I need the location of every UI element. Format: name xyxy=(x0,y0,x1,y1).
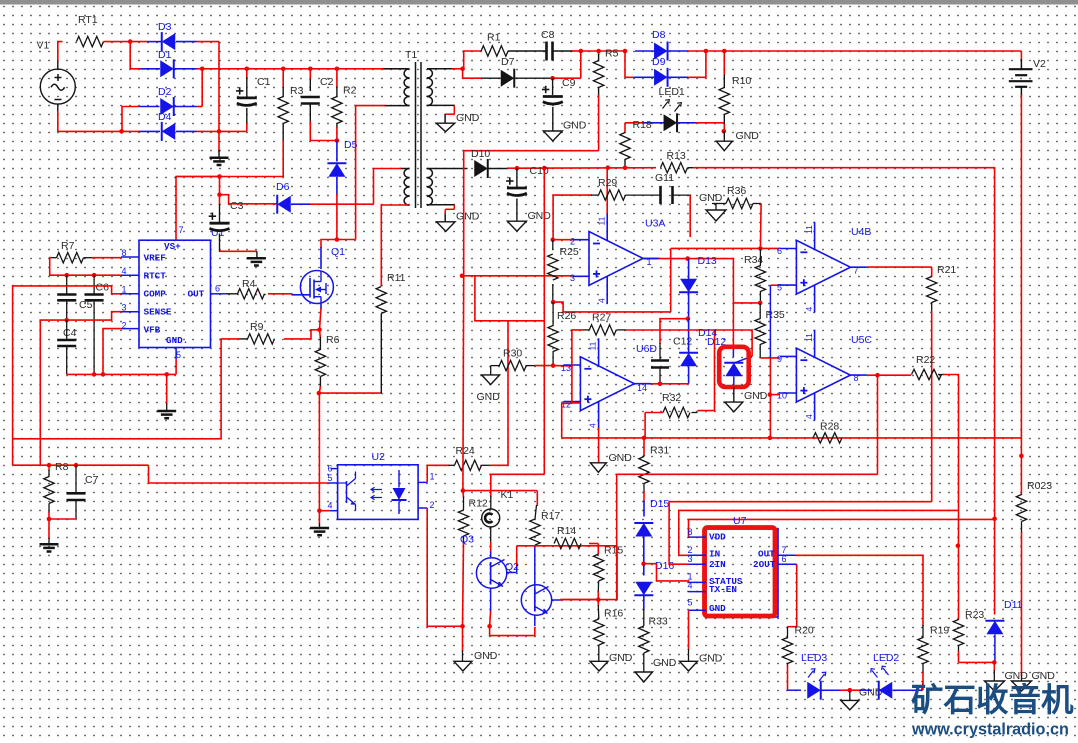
wire sense column xyxy=(318,393,320,511)
svg-text:R8: R8 xyxy=(55,461,69,473)
svg-text:R17: R17 xyxy=(541,510,560,522)
wire R9 left xyxy=(239,338,248,340)
wire C12 top lead xyxy=(659,343,661,360)
resistor R023 xyxy=(1016,495,1026,522)
svg-text:R3: R3 xyxy=(290,85,304,97)
capacitor C2 xyxy=(301,96,320,99)
node plus275 junction xyxy=(460,274,465,279)
svg-text:R2: R2 xyxy=(343,85,357,97)
svg-text:C10: C10 xyxy=(530,165,549,177)
svg-text:3: 3 xyxy=(570,273,575,283)
wire R36 left xyxy=(715,204,717,211)
svg-text:R14: R14 xyxy=(557,525,576,537)
wire y501 bus xyxy=(669,502,932,565)
diode D13 xyxy=(680,279,697,293)
resistor R26 xyxy=(548,326,558,352)
wire R18 bottom xyxy=(624,160,626,168)
resistor R21 leads xyxy=(931,267,933,276)
svg-text:GND: GND xyxy=(653,657,677,669)
wire y275 plus input xyxy=(462,275,573,277)
transformer T1 lower-left winding xyxy=(404,169,409,178)
wire D4 to node D xyxy=(176,130,197,132)
wire node D down xyxy=(218,131,220,152)
transistor Q3 xyxy=(476,558,506,588)
wire R5 to C10 corner xyxy=(464,151,599,276)
wire C3 top xyxy=(219,177,221,195)
ground C10 xyxy=(507,221,526,231)
wire K1 bottom xyxy=(490,527,492,543)
wire y437 bus xyxy=(562,437,1022,439)
node R34 bottom junction xyxy=(758,301,763,306)
wire R13 right xyxy=(688,167,695,169)
wire R19 bottom xyxy=(922,672,924,690)
wire rail68 xyxy=(202,68,408,70)
svg-text:GND: GND xyxy=(709,603,726,614)
svg-text:11: 11 xyxy=(597,216,607,225)
diode D16 xyxy=(635,582,652,596)
wire C4 bottom xyxy=(66,347,68,375)
wire C6R lead xyxy=(93,275,95,294)
wire A to D1 xyxy=(130,42,140,69)
LED3 arrow 2 xyxy=(819,672,826,681)
resistor R20 leads xyxy=(787,627,789,639)
wire R5 col lower xyxy=(462,276,465,491)
wire C5L bottom xyxy=(66,301,68,320)
node R2 top xyxy=(335,67,340,72)
node R8 top junction xyxy=(47,463,52,468)
resistor R11 xyxy=(376,287,386,314)
node D13 bottom junction xyxy=(686,316,691,321)
svg-text:U7: U7 xyxy=(733,515,747,527)
node D5 top xyxy=(335,138,340,143)
wire R27 left xyxy=(583,329,589,331)
op-amp U3A xyxy=(589,232,643,286)
svg-text:D3: D3 xyxy=(158,21,172,33)
resistor R33 xyxy=(639,626,649,653)
ground C9 xyxy=(543,131,562,141)
ground earth bridge xyxy=(210,157,229,160)
ground U6D xyxy=(590,463,606,473)
wire R6 to R11 xyxy=(319,392,381,394)
wire R32 left xyxy=(645,412,663,414)
wire drain down to Q1 xyxy=(321,240,337,249)
wire LED3 right xyxy=(821,689,841,691)
svg-text:GND: GND xyxy=(528,210,552,222)
node R15 bottom junction xyxy=(596,597,601,602)
diode D15 xyxy=(635,523,652,537)
svg-text:R20: R20 xyxy=(795,625,814,637)
wire bridge right vertical xyxy=(218,42,220,132)
resistor R30 xyxy=(499,360,526,370)
wire R3 bottom xyxy=(282,123,284,142)
ground T1 lower xyxy=(437,222,455,232)
wire R32 to D14 col xyxy=(698,330,715,411)
resistor R5 xyxy=(593,61,603,88)
wire R15 top lead xyxy=(597,544,599,555)
node U2 pin4 junction xyxy=(317,508,322,513)
wire R023 bottom col xyxy=(1021,532,1023,676)
SCR D12 symbol xyxy=(732,346,734,357)
wire y546 bus xyxy=(517,545,590,547)
node R26 bottom junction xyxy=(551,363,556,368)
node A junction xyxy=(128,39,133,44)
wire V2 col to R023 xyxy=(1020,438,1022,494)
IC U1 box xyxy=(139,240,211,347)
transformer T1 lower-right winding xyxy=(427,169,432,178)
capacitor C11 xyxy=(659,186,662,204)
svg-text:VFB: VFB xyxy=(144,325,161,336)
probe K1 xyxy=(482,509,500,527)
wire y465 to U2 pin5 xyxy=(149,465,329,483)
wire emitter jog xyxy=(490,626,535,635)
svg-text:4: 4 xyxy=(597,298,607,303)
wire down to D7 row xyxy=(463,69,482,78)
svg-text:R4: R4 xyxy=(242,278,256,290)
resistor R7 xyxy=(57,253,84,263)
resistor R32 xyxy=(663,407,690,417)
U7 pin1 stub xyxy=(689,581,707,583)
node VFB bottom junction xyxy=(101,372,106,377)
node R6 bottom junction xyxy=(317,391,322,396)
wire C2 lead top xyxy=(309,69,311,80)
wire R22 right xyxy=(938,374,944,376)
U6D gnd wire xyxy=(598,428,600,463)
svg-text:C6: C6 xyxy=(96,282,110,294)
wire R24 right xyxy=(482,464,491,466)
wire U7 gnd stem xyxy=(688,649,690,662)
svg-text:D15: D15 xyxy=(650,498,669,510)
wire D8 cathode xyxy=(667,50,688,52)
LED2 arrow 2 xyxy=(882,666,889,675)
svg-text:T1: T1 xyxy=(405,49,417,61)
wire C8 node down xyxy=(580,51,582,78)
wire R21 bottom col xyxy=(931,311,933,502)
svg-text:Q3: Q3 xyxy=(460,534,474,546)
svg-text:R27: R27 xyxy=(592,312,611,324)
wire Q1 source xyxy=(320,303,322,309)
wire to U4B minus col xyxy=(670,248,672,312)
wire to D3 xyxy=(130,41,147,43)
node C3 wire junction xyxy=(217,174,222,179)
wire R27 right xyxy=(617,329,627,331)
svg-text:R5: R5 xyxy=(605,48,619,60)
wire rail68 into T1 xyxy=(383,68,410,70)
svg-text:GND: GND xyxy=(699,653,723,665)
capacitor C4 xyxy=(57,339,76,342)
U1 pin6 stub xyxy=(211,293,226,295)
node VDD rail junction xyxy=(992,517,997,522)
svg-text:R13: R13 xyxy=(667,150,686,162)
resistor R34 xyxy=(755,266,765,292)
resistor R16 xyxy=(594,619,604,645)
resistor R25 bottom lead xyxy=(552,284,554,301)
node R5 top junction xyxy=(596,49,601,54)
wire R6 bottom xyxy=(319,377,321,388)
wire R2 lead top xyxy=(336,69,338,88)
diode D5 xyxy=(328,163,345,177)
LED2 arrow 1 xyxy=(871,669,878,678)
svg-text:10: 10 xyxy=(777,391,787,401)
wire lower-left top xyxy=(400,168,410,170)
svg-text:R24: R24 xyxy=(456,445,475,457)
LED3 arrow 1 xyxy=(808,669,815,678)
svg-text:V1: V1 xyxy=(37,40,50,52)
wire D13 bottom xyxy=(688,293,690,319)
wire C10 bottom xyxy=(516,199,518,222)
wire y176 link xyxy=(176,176,220,178)
U1 pin4 stub xyxy=(121,274,139,276)
resistor R26 leads xyxy=(552,302,554,326)
wire R8 bottom xyxy=(48,504,50,514)
diode LED2 xyxy=(879,682,893,699)
wire R11 bottom xyxy=(380,314,382,394)
svg-text:V2: V2 xyxy=(1033,58,1046,70)
wire U6D minus stub link xyxy=(553,365,573,367)
svg-text:D13: D13 xyxy=(698,255,717,267)
wire 2OUT down xyxy=(788,564,797,627)
wire R10 gnd stem xyxy=(723,131,725,141)
U2 LED xyxy=(398,470,400,488)
svg-text:4: 4 xyxy=(804,414,814,419)
node U3A supply junction xyxy=(606,165,611,170)
wire C6R bottom xyxy=(93,301,95,374)
svg-text:GND: GND xyxy=(477,391,501,403)
capacitor C6 xyxy=(85,293,104,296)
wire U4B plus stub link xyxy=(770,284,780,286)
diode LED3 xyxy=(807,682,821,699)
svg-text:R21: R21 xyxy=(937,264,956,276)
capacitor C8 xyxy=(545,42,548,61)
wire C7 lead xyxy=(75,465,77,492)
ground rail1 xyxy=(985,681,1005,691)
wire lower-right bottom to gnd xyxy=(427,204,455,206)
ground R10 xyxy=(716,141,732,151)
wire C12 bottom lead xyxy=(659,369,661,384)
wire D10 cathode xyxy=(489,168,509,170)
wire Q2 collector xyxy=(552,599,562,601)
svg-text:D8: D8 xyxy=(652,29,666,41)
battery V2 xyxy=(1020,51,1022,60)
wire Q3 collector xyxy=(516,546,518,566)
ground U1 earth xyxy=(157,410,176,413)
resistor R12 lead xyxy=(462,491,465,498)
U2 pin2 stub xyxy=(418,507,427,509)
resistor R2 xyxy=(332,97,342,124)
wire node D to C1 xyxy=(219,130,247,132)
svg-text:R32: R32 xyxy=(662,392,681,404)
node Q1 source junction xyxy=(317,328,322,333)
wire C5L lead xyxy=(66,275,68,294)
node T1 out junction xyxy=(460,67,465,72)
svg-text:U5C: U5C xyxy=(851,334,872,346)
wire plus col down xyxy=(475,276,544,321)
resistor R12 xyxy=(458,510,468,536)
highlight box D12 xyxy=(719,347,749,387)
wire U3A out col to box xyxy=(732,303,734,348)
node R22 col junction xyxy=(956,544,961,549)
svg-text:COMP: COMP xyxy=(144,289,167,300)
svg-text:R023: R023 xyxy=(1027,480,1052,492)
wire up to R1 row xyxy=(463,51,481,69)
wire R12 bottom xyxy=(463,536,465,544)
wire R31-R32 link xyxy=(644,413,646,438)
ground R30 xyxy=(482,375,500,385)
resistor R20 xyxy=(782,638,792,664)
resistor R13 xyxy=(661,163,688,173)
diode LED1 xyxy=(664,114,678,131)
svg-text:R26: R26 xyxy=(557,310,576,322)
svg-text:2IN: 2IN xyxy=(709,559,726,570)
svg-text:GND: GND xyxy=(1005,670,1029,682)
wire OUT to R4 xyxy=(225,293,238,295)
U2 phototransistor xyxy=(346,481,348,503)
node U5C out junction xyxy=(875,373,880,378)
svg-text:R10: R10 xyxy=(732,75,751,87)
resistor R35 xyxy=(755,319,765,345)
node C6 top junction xyxy=(64,273,69,278)
wire Q2 base xyxy=(534,547,536,590)
wire U4B minus bus xyxy=(671,247,780,249)
wire D13 to D12b xyxy=(687,318,690,320)
svg-text:GND: GND xyxy=(456,112,480,124)
wire y510 bus xyxy=(679,510,959,555)
resistor R27 xyxy=(589,325,616,335)
transistor Q1 xyxy=(300,271,333,304)
svg-text:VDD: VDD xyxy=(709,532,726,543)
wire LED2 left xyxy=(850,689,860,691)
ground C3 earth xyxy=(247,257,266,260)
svg-text:矿石收音机: 矿石收音机 xyxy=(911,682,1074,718)
U7 pin3 stub xyxy=(689,563,707,565)
U2 pin6 stub xyxy=(331,468,338,470)
U7 pin8 stub xyxy=(689,536,707,538)
wire VDD col down xyxy=(994,519,996,615)
wire D9 cathode xyxy=(667,76,688,78)
svg-text:D10: D10 xyxy=(471,148,490,160)
wire R10 bottom xyxy=(723,115,725,126)
wire C4 top lead xyxy=(66,320,68,339)
wire to D4 xyxy=(122,130,139,132)
svg-text:2: 2 xyxy=(570,237,575,247)
node D junction xyxy=(217,129,222,134)
wire R7 left loop xyxy=(51,257,57,259)
resistor R6 xyxy=(315,350,325,377)
svg-text:OUT: OUT xyxy=(188,289,205,300)
wire R17 lead top xyxy=(536,491,538,506)
wire U4B plus col xyxy=(769,285,771,358)
wire C9 lead xyxy=(552,78,554,95)
wire D5 bottom lead xyxy=(336,177,338,195)
svg-text:11: 11 xyxy=(804,333,814,342)
wire R20 bottom xyxy=(787,665,789,690)
transformer T1 core xyxy=(415,62,417,208)
wire pin4 stub link xyxy=(319,510,329,512)
wire D12 gnd stem xyxy=(733,387,735,402)
wire R23 link xyxy=(959,661,995,663)
svg-text:8: 8 xyxy=(854,373,859,383)
svg-text:4: 4 xyxy=(588,423,598,428)
svg-text:11: 11 xyxy=(588,341,598,350)
U1 pin5 wire xyxy=(175,359,177,374)
node D11 gnd junction xyxy=(992,660,997,665)
svg-text:SENSE: SENSE xyxy=(144,307,172,318)
wire R23 bottom xyxy=(958,651,960,662)
svg-text:4: 4 xyxy=(328,501,333,511)
node D8 left junction xyxy=(623,49,628,54)
resistor RT1 xyxy=(77,36,104,46)
resistor R29 xyxy=(599,190,626,200)
U2 arrow 1 xyxy=(371,487,382,492)
wire RT1 right xyxy=(104,41,131,43)
svg-text:1: 1 xyxy=(122,285,127,295)
AC source V1 xyxy=(40,69,75,104)
svg-text:D2: D2 xyxy=(158,86,172,98)
svg-text:R15: R15 xyxy=(604,545,623,557)
wire lower-left bottom xyxy=(408,204,410,206)
svg-text:GND: GND xyxy=(699,192,723,204)
svg-text:D6: D6 xyxy=(276,181,290,193)
op-amp U6D xyxy=(580,357,634,411)
wire R36 right xyxy=(753,203,761,205)
window top bar xyxy=(0,0,1078,5)
svg-text:R29: R29 xyxy=(598,177,617,189)
svg-text:11: 11 xyxy=(804,225,814,234)
wire R4 to gate xyxy=(268,293,293,295)
wire V1 top xyxy=(57,61,59,70)
svg-text:GND: GND xyxy=(474,650,498,662)
wire R8 gnd xyxy=(48,519,50,539)
svg-text:D11: D11 xyxy=(1004,599,1023,611)
svg-text:R7: R7 xyxy=(61,240,75,252)
op-amp U4B xyxy=(796,240,850,294)
resistor R10 xyxy=(719,88,729,115)
wire C9 node right xyxy=(553,77,581,79)
wire U6D out bus xyxy=(649,383,689,385)
wire R29 col xyxy=(553,195,592,240)
wire out to corner xyxy=(688,259,734,303)
wire D5 top lead xyxy=(336,141,338,162)
wire R33 bottom xyxy=(643,653,645,672)
svg-text:R31: R31 xyxy=(650,445,669,457)
wire R16 bottom xyxy=(598,645,600,662)
wire R6 top lead xyxy=(319,330,322,338)
wire y519 bus xyxy=(689,519,995,537)
svg-text:6: 6 xyxy=(777,246,782,256)
resistor R9 xyxy=(248,334,275,344)
node C8 right junction xyxy=(579,49,584,54)
op-amp U5C xyxy=(796,348,850,402)
wire D6 right xyxy=(291,203,311,205)
capacitor C7 xyxy=(67,492,86,495)
wire U6D plus down xyxy=(561,403,563,438)
wire U3A out xyxy=(643,258,660,260)
wire D13 to C12 top xyxy=(660,319,688,344)
wire gnd lead U2 xyxy=(318,511,320,525)
wire D16 top lead xyxy=(643,564,645,576)
wire D11 gnd stem xyxy=(993,662,995,671)
wire rail168 xyxy=(517,167,656,170)
ground R33 xyxy=(635,672,652,682)
wire U7 gnd xyxy=(688,610,690,650)
wire C11 right xyxy=(674,194,692,196)
wire D15 bottom xyxy=(643,537,645,564)
wire R5 top lead xyxy=(598,51,600,55)
svg-text:13: 13 xyxy=(561,363,571,373)
node y437 R31 junction xyxy=(642,436,647,441)
wire R7 to pin8 xyxy=(84,257,94,259)
ground R36 xyxy=(706,210,726,221)
wire U5C plus link xyxy=(770,394,780,396)
